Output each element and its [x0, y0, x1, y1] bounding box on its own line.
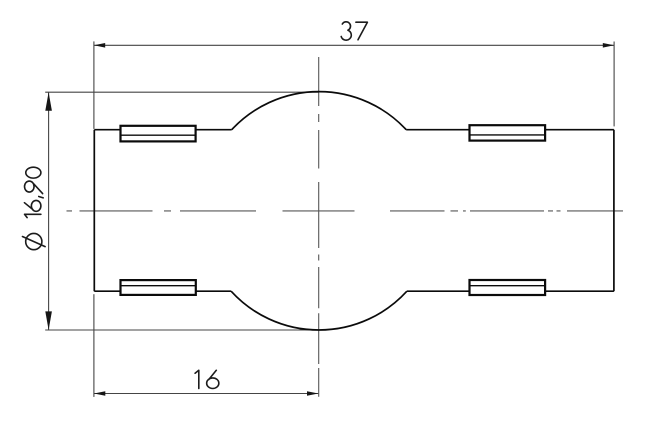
dim diameter: top extension (tangent) line — [45, 91, 319, 93]
dim diameter: text "⌀ 16,90" rotated — [22, 167, 45, 250]
top edge segment left — [94, 129, 120, 131]
bottom edge segment mid-right — [407, 290, 470, 292]
top edge segment mid-right — [406, 129, 469, 131]
dim diameter: top arrowhead — [45, 92, 52, 111]
top edge segment mid-left — [196, 129, 232, 131]
bottom bulge arc — [231, 291, 407, 330]
dim diameter: dimension line — [48, 92, 50, 330]
crimp band bottom-left — [121, 280, 196, 295]
crimp band top-left — [121, 126, 196, 142]
dim 37: text "37" — [341, 22, 367, 40]
dim 37: right extension line — [613, 42, 615, 127]
crimp band top-right — [470, 125, 546, 140]
dim 37: left extension line — [93, 41, 95, 128]
top edge segment right — [545, 129, 614, 131]
dim 16: left extension line — [93, 294, 95, 397]
horizontal centerline — [67, 210, 624, 212]
vertical centerline — [318, 57, 320, 397]
dim 37: dimension line — [94, 44, 614, 46]
dim diameter: bottom extension (tangent) line — [45, 329, 319, 331]
dim 16: text "16" — [195, 370, 219, 388]
bottom edge segment right — [545, 290, 614, 292]
dim 37: left arrowhead — [94, 43, 105, 48]
part outline — [94, 92, 614, 330]
dim diameter: bottom arrowhead — [45, 311, 52, 330]
right edge — [613, 130, 615, 292]
left edge — [93, 130, 95, 292]
dim 37: right arrowhead — [603, 43, 614, 48]
bottom edge segment mid-left — [196, 290, 231, 292]
dim 16: dimension line — [94, 393, 318, 395]
dim 16: right arrowhead — [307, 391, 318, 396]
dim 16: left arrowhead — [94, 391, 105, 396]
crimp band bottom-right — [470, 280, 546, 295]
bottom edge segment left — [94, 290, 120, 292]
top bulge arc — [232, 92, 407, 130]
